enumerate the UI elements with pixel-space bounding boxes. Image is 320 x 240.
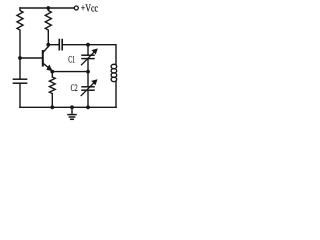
svg-text:C1: C1: [68, 56, 75, 66]
svg-text:+Vcc: +Vcc: [81, 3, 99, 14]
svg-text:C2: C2: [71, 84, 78, 94]
